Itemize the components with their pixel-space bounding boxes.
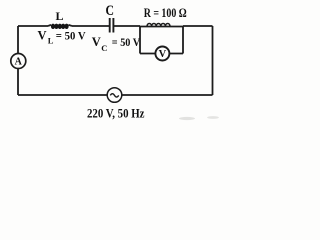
svg-text:L: L bbox=[55, 9, 63, 23]
svg-text:V: V bbox=[159, 49, 167, 60]
svg-text:C: C bbox=[105, 3, 114, 19]
svg-text:L: L bbox=[48, 36, 54, 46]
svg-text:C: C bbox=[101, 43, 107, 53]
svg-text:V: V bbox=[38, 29, 47, 43]
svg-text:A: A bbox=[15, 57, 23, 68]
svg-text:R = 100 Ω: R = 100 Ω bbox=[144, 5, 187, 20]
svg-text:= 50 V: = 50 V bbox=[56, 29, 86, 43]
svg-text:V: V bbox=[92, 35, 101, 49]
svg-text:220 V, 50 Hz: 220 V, 50 Hz bbox=[87, 107, 145, 121]
svg-text:= 50 V: = 50 V bbox=[112, 35, 141, 49]
